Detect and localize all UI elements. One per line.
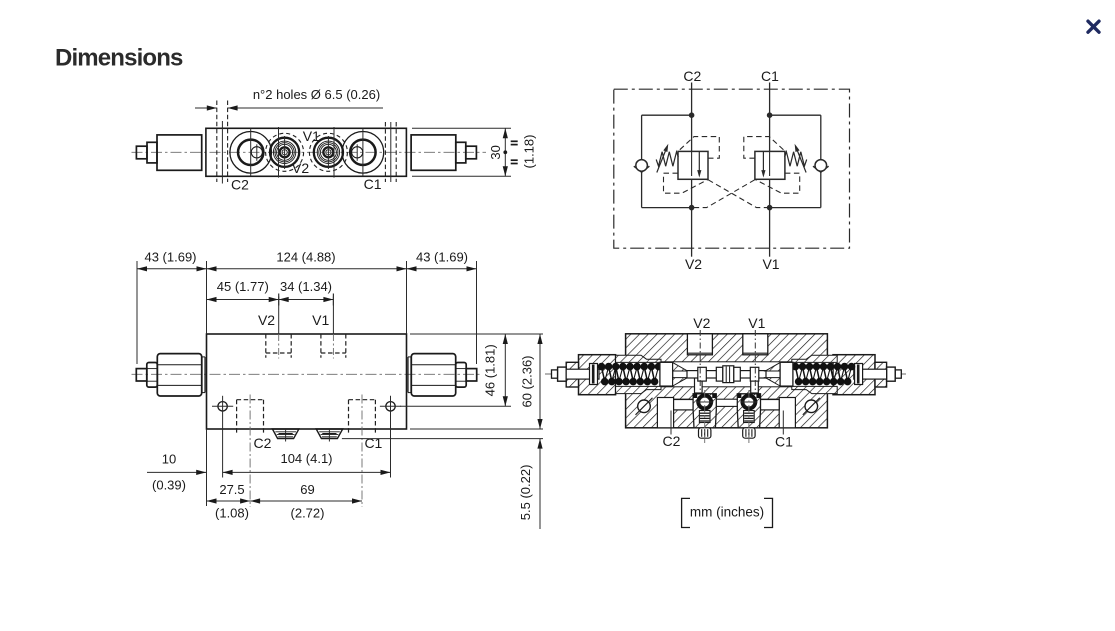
svg-text:V1: V1 — [762, 256, 779, 272]
left seat wedge — [673, 363, 688, 371]
section right cartridge hex — [833, 355, 875, 395]
dimension 104 line — [223, 471, 391, 473]
top view: right cartridge hex — [411, 135, 456, 170]
top view: left cartridge washer — [201, 135, 203, 170]
right bypass wire rail — [820, 115, 822, 207]
spool shaft — [687, 371, 766, 378]
right spring seat — [855, 364, 863, 385]
dimension row1 line — [137, 268, 477, 270]
front view: centerline — [132, 373, 483, 375]
svg-text:(2.72): (2.72) — [291, 506, 325, 521]
dimension 27.5 line — [207, 500, 251, 502]
pilot line left cross to V1 — [708, 180, 769, 208]
port V2 hidden square — [265, 334, 267, 358]
svg-text:C1: C1 — [775, 434, 793, 450]
port C1 hidden square — [348, 400, 350, 433]
top view: centerline — [132, 151, 487, 153]
front view: left washer — [201, 357, 203, 393]
svg-text:C1: C1 — [364, 435, 382, 451]
svg-text:45 (1.77): 45 (1.77) — [217, 279, 269, 294]
dimension 69 line — [250, 500, 362, 502]
junction dot C1 — [767, 113, 772, 118]
svg-text:10: 10 — [162, 452, 176, 467]
schematic enclosure dash-dot box — [614, 89, 850, 248]
C2 gallery cavity — [657, 398, 673, 428]
port C1 small pilot hole — [352, 147, 363, 158]
section right sleeve — [792, 355, 837, 362]
svg-text:V1: V1 — [312, 312, 329, 328]
svg-text:(1.08): (1.08) — [215, 506, 249, 521]
relief valve left adjust arrow — [657, 148, 667, 173]
spool collars — [698, 367, 707, 381]
port C2 small pilot hole — [251, 147, 262, 158]
right mounting hole section — [805, 400, 818, 413]
pilot line right lower — [755, 173, 799, 193]
port C2 centerline — [249, 395, 251, 508]
pilot line right cross to V2 — [692, 180, 755, 208]
junction dot V2 — [689, 205, 694, 210]
svg-text:V1: V1 — [748, 315, 765, 331]
left relief spring — [602, 367, 605, 382]
section left locknut — [566, 362, 578, 387]
top view: right cartridge washer — [410, 135, 412, 170]
C1 pilot passage — [758, 400, 779, 410]
pilot piston C2 — [695, 377, 703, 393]
dimension 30 (1.18) extension lines — [412, 127, 511, 129]
svg-text:69: 69 — [300, 482, 314, 497]
C1 gallery cavity — [779, 398, 795, 428]
section centerline — [545, 373, 906, 375]
svg-text:30: 30 — [488, 145, 503, 159]
left bypass wire rail — [641, 115, 643, 207]
port V1 hidden square — [320, 334, 322, 358]
pilot line left lower — [664, 173, 708, 193]
right relief spring — [796, 367, 799, 382]
svg-text:mm (inches): mm (inches) — [690, 504, 764, 519]
close button X — [1088, 21, 1099, 32]
node C2 line — [691, 83, 693, 152]
relief valve right flow arrow — [762, 151, 764, 173]
check valve right — [813, 166, 829, 172]
front view: valve body outline — [207, 334, 407, 429]
svg-text:C2: C2 — [683, 68, 701, 84]
port V2 cartridge rings — [266, 133, 304, 171]
port V1 cavity — [743, 334, 768, 355]
units note mm (inches) — [682, 498, 773, 527]
relief valve left spring — [656, 152, 678, 166]
C2 pilot passage — [674, 400, 695, 410]
svg-text:n°2 holes Ø 6.5 (0.26): n°2 holes Ø 6.5 (0.26) — [253, 87, 380, 102]
top view: valve body outline — [206, 128, 407, 176]
svg-text:C1: C1 — [364, 176, 382, 192]
left bypass wire top — [642, 114, 692, 116]
top view: left adjusting tip — [136, 146, 147, 159]
right bypass wire bottom — [770, 207, 821, 209]
dimension line n2 holes — [195, 107, 217, 109]
svg-text:C2: C2 — [254, 435, 272, 451]
top view: left mounting hole hidden lines — [216, 101, 218, 183]
left adjusting screw rod — [552, 370, 558, 378]
port V1 axis line — [333, 127, 335, 178]
front view: left locknut — [147, 363, 158, 388]
relief adjust boss C2 side — [272, 429, 299, 439]
svg-text:(0.39): (0.39) — [152, 478, 186, 493]
svg-text:V1: V1 — [303, 128, 320, 144]
port C2 counterbore circle — [230, 132, 272, 174]
svg-text:60 (2.36): 60 (2.36) — [520, 355, 535, 407]
left poppet — [660, 362, 673, 386]
front view: left cartridge hex — [157, 354, 201, 396]
left mounting hole — [218, 402, 227, 411]
top view: right locknut — [456, 142, 466, 163]
extension lines row1 — [136, 261, 138, 364]
pilot line right upper — [744, 137, 785, 159]
symmetry marks — [511, 140, 518, 142]
top view: right adjusting tip — [466, 146, 477, 159]
junction dot C2 — [689, 113, 694, 118]
section right locknut — [875, 362, 887, 387]
svg-text:(1.18): (1.18) — [522, 135, 537, 169]
svg-text:C2: C2 — [231, 177, 249, 193]
right mounting hole — [386, 402, 395, 411]
dimension row2 line — [207, 299, 334, 301]
svg-text:V2: V2 — [292, 160, 309, 176]
svg-text:C2: C2 — [663, 433, 681, 449]
svg-text:C1: C1 — [761, 68, 779, 84]
svg-text:Dimensions: Dimensions — [55, 45, 183, 72]
left mounting hole section — [638, 400, 651, 413]
dimension 10 leader — [147, 471, 206, 473]
junction dot V1 — [767, 205, 772, 210]
pilot piston C1 — [751, 377, 759, 393]
port C1 counterbore circle — [342, 132, 384, 174]
svg-text:34 (1.34): 34 (1.34) — [280, 279, 332, 294]
relief valve left box — [678, 151, 708, 179]
dimension 5.5 line — [539, 439, 541, 529]
relief valve right box — [755, 151, 785, 179]
port V2 axis line — [278, 127, 280, 178]
relief valve right adjust arrow — [796, 148, 806, 173]
top view: left cartridge hex — [157, 135, 202, 170]
port C2 hidden square — [236, 400, 238, 433]
svg-text:43 (1.69): 43 (1.69) — [416, 250, 468, 265]
top view: right mounting hole hidden lines — [384, 122, 386, 182]
node C1 line — [769, 83, 771, 152]
svg-text:27.5: 27.5 — [219, 482, 244, 497]
dimension 60 line — [539, 334, 541, 429]
front view: right adjusting tip — [466, 369, 477, 381]
dimension 46 line — [504, 334, 506, 406]
port V2 cavity — [687, 334, 712, 355]
front view: right locknut — [456, 363, 467, 388]
svg-text:43 (1.69): 43 (1.69) — [144, 250, 196, 265]
port V1 cartridge rings — [309, 133, 347, 171]
svg-text:46 (1.81): 46 (1.81) — [483, 344, 498, 396]
right seat wedge — [765, 363, 780, 371]
svg-text:5.5 (0.22): 5.5 (0.22) — [518, 465, 533, 521]
front view: right cartridge hex — [411, 354, 455, 396]
section left sleeve — [616, 355, 661, 362]
left bypass wire bottom — [642, 207, 692, 209]
section bore — [616, 362, 833, 387]
dimension 30 line — [504, 128, 506, 176]
svg-text:124 (4.88): 124 (4.88) — [276, 250, 335, 265]
port C1 centerline — [361, 395, 363, 508]
front view: right washer — [407, 357, 409, 393]
right bypass wire top — [770, 114, 821, 116]
svg-text:104 (4.1): 104 (4.1) — [280, 451, 332, 466]
pilot line left upper — [678, 137, 719, 159]
section left cartridge hex — [579, 355, 616, 395]
top view: left locknut — [147, 142, 157, 163]
front view: left adjusting tip — [136, 369, 147, 381]
svg-text:V2: V2 — [685, 256, 702, 272]
section main body block hatched — [626, 334, 828, 428]
pilot passage band — [674, 399, 796, 406]
left spring seat — [590, 364, 598, 385]
right adjusting screw rod — [895, 370, 901, 378]
right extension lines — [410, 333, 543, 335]
check ball C2 — [693, 394, 716, 428]
relief adjust boss C1 side — [316, 429, 343, 439]
check ball C1 — [737, 394, 760, 428]
relief valve left flow arrow — [698, 151, 700, 173]
relief valve right spring — [785, 152, 807, 166]
svg-text:V2: V2 — [258, 312, 275, 328]
bottom extension lines — [206, 429, 208, 506]
check valve left — [634, 166, 650, 172]
right poppet — [780, 362, 793, 386]
svg-text:V2: V2 — [693, 315, 710, 331]
